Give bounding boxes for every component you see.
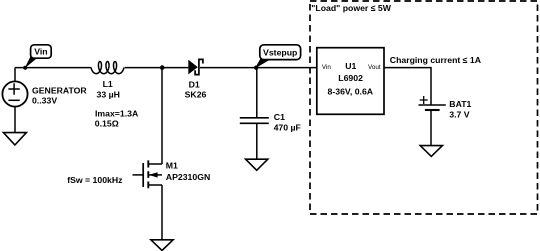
svg-text:D1: D1 — [189, 79, 200, 89]
svg-text:Imax=1.3A: Imax=1.3A — [95, 109, 139, 119]
svg-text:"Load" power ≤ 5W: "Load" power ≤ 5W — [311, 3, 391, 13]
svg-text:0..33V: 0..33V — [32, 95, 57, 105]
svg-text:AP2310GN: AP2310GN — [166, 172, 210, 182]
svg-text:Charging current ≤ 1A: Charging current ≤ 1A — [390, 55, 482, 65]
svg-text:Vout: Vout — [368, 64, 381, 71]
svg-text:8-36V, 0.6A: 8-36V, 0.6A — [328, 86, 374, 96]
svg-text:470 µF: 470 µF — [274, 122, 301, 132]
svg-text:GENERATOR: GENERATOR — [32, 86, 87, 96]
svg-text:BAT1: BAT1 — [449, 99, 471, 109]
svg-text:Vin: Vin — [34, 47, 47, 57]
svg-text:SK26: SK26 — [185, 89, 207, 99]
svg-text:C1: C1 — [274, 112, 285, 122]
svg-text:L1: L1 — [103, 79, 113, 89]
svg-text:33 µH: 33 µH — [97, 89, 120, 99]
svg-text:L6902: L6902 — [338, 73, 363, 83]
svg-text:0.15Ω: 0.15Ω — [95, 119, 119, 129]
svg-text:Vstepup: Vstepup — [263, 47, 297, 57]
svg-text:U1: U1 — [345, 61, 356, 71]
svg-text:Vin: Vin — [322, 64, 331, 71]
svg-text:M1: M1 — [166, 161, 178, 171]
svg-text:fSw = 100kHz: fSw = 100kHz — [67, 175, 123, 185]
svg-text:3.7 V: 3.7 V — [449, 109, 469, 119]
